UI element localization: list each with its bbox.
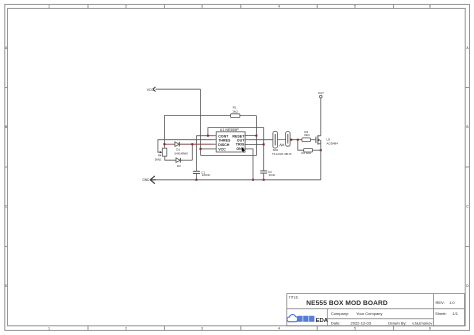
- wire pot bottom to D2: [165, 156, 176, 160]
- wire VCC vertical drop: [200, 89, 202, 155]
- svg-text:v.tazmanov: v.tazmanov: [412, 321, 432, 326]
- node TRIG junction: [263, 143, 265, 145]
- svg-text:4: 4: [278, 327, 280, 331]
- svg-text:CONT: CONT: [218, 134, 229, 138]
- node GND pin rail junction: [252, 179, 254, 181]
- svg-text:1kΩ: 1kΩ: [232, 110, 238, 114]
- svg-text:GND: GND: [142, 178, 150, 182]
- svg-text:10nF: 10nF: [269, 173, 276, 177]
- node VCC junction: [200, 148, 202, 150]
- svg-text:2: 2: [125, 327, 127, 331]
- capacitor C2: [260, 170, 275, 177]
- wire port to drain: [320, 98, 322, 136]
- svg-text:D1: D1: [176, 147, 180, 151]
- svg-text:SW1: SW1: [273, 148, 279, 152]
- svg-text:EDA: EDA: [316, 318, 329, 324]
- svg-text:Sheet:: Sheet:: [435, 311, 447, 316]
- wire R2 branch down: [298, 140, 304, 151]
- svg-text:Your Company: Your Company: [356, 311, 382, 316]
- svg-text:2022-12-03: 2022-12-03: [351, 321, 372, 326]
- svg-text:1/1: 1/1: [452, 311, 458, 316]
- svg-text:Date:: Date:: [331, 321, 341, 326]
- svg-text:4: 4: [278, 5, 280, 9]
- svg-text:OUT: OUT: [318, 91, 324, 95]
- svg-text:5MΩ: 5MΩ: [155, 158, 162, 162]
- wire RESET pin: [249, 135, 257, 137]
- title block: [287, 294, 465, 326]
- wire VCC port to drop: [156, 88, 201, 90]
- wire C2 bottom: [263, 173, 265, 180]
- resistor R2: [302, 148, 313, 155]
- svg-text:Company:: Company:: [331, 311, 349, 316]
- wire GND pin down: [249, 149, 253, 180]
- svg-text:33Ω: 33Ω: [304, 133, 310, 137]
- frame ticks left: [5, 88, 8, 247]
- node C2 rail junction: [263, 179, 265, 181]
- svg-text:A: A: [466, 46, 469, 50]
- svg-text:3: 3: [201, 5, 203, 9]
- U1 pin stubs left: [213, 136, 216, 149]
- svg-text:RESET: RESET: [232, 134, 245, 138]
- svg-text:VCC: VCC: [218, 148, 226, 152]
- ground port: [142, 176, 156, 184]
- transistor U2 AOD484: [316, 135, 338, 146]
- svg-text:R2 1kΩ: R2 1kΩ: [302, 151, 311, 155]
- svg-text:THRES: THRES: [218, 139, 231, 143]
- node diode cathode junction: [191, 143, 193, 145]
- wire R3 to gate: [311, 139, 316, 141]
- node C1 ground junction: [195, 179, 197, 181]
- node source junction: [320, 149, 322, 151]
- svg-text:C: C: [466, 205, 469, 209]
- wire R2 to source: [313, 149, 321, 151]
- wire CONT loop top: [208, 128, 264, 171]
- capacitor C1: [193, 170, 211, 177]
- port VCC: [147, 87, 156, 92]
- node switch out junction: [290, 139, 292, 141]
- switch SW1 TS-1002T-3817F: [272, 131, 292, 155]
- wire D2 to cathode node: [180, 159, 192, 161]
- resistor R1: [231, 106, 240, 118]
- node RESET junction: [255, 135, 257, 137]
- svg-text:REV:: REV:: [436, 300, 445, 305]
- svg-text:1.0: 1.0: [449, 300, 455, 305]
- frame row letters: [5, 46, 469, 288]
- svg-text:6: 6: [429, 327, 431, 331]
- wire C1 vertical: [195, 136, 197, 172]
- svg-text:Drawn By:: Drawn By:: [388, 321, 406, 326]
- svg-text:5: 5: [354, 5, 356, 9]
- wire OUT to switch: [249, 139, 273, 141]
- svg-text:NE555 BOX MOD BOARD: NE555 BOX MOD BOARD: [306, 300, 388, 307]
- node R3 branch junction: [297, 139, 299, 141]
- wire CONT horizontal: [196, 135, 213, 137]
- svg-text:D2: D2: [177, 164, 181, 168]
- wire TRIG pin: [249, 143, 264, 145]
- frame ticks top: [88, 4, 394, 8]
- svg-text:2: 2: [125, 5, 127, 9]
- wire R1 line left: [164, 116, 230, 149]
- svg-text:AOD484: AOD484: [326, 142, 338, 146]
- frame ticks right: [465, 88, 469, 247]
- svg-text:B: B: [5, 125, 7, 129]
- svg-text:1N4148WS: 1N4148WS: [174, 152, 188, 156]
- svg-text:DISCH: DISCH: [218, 143, 230, 147]
- svg-text:6: 6: [429, 5, 431, 9]
- svg-text:TITLE:: TITLE:: [289, 295, 299, 299]
- svg-text:1: 1: [48, 5, 50, 9]
- port OUT top right: [318, 91, 324, 98]
- U1 pin stubs right: [245, 136, 249, 149]
- svg-text:1: 1: [48, 327, 50, 331]
- wire ground rail: [156, 179, 321, 181]
- wire VCC pin horizontal: [201, 148, 214, 150]
- wire reset loop bottom: [201, 116, 257, 156]
- svg-text:U1 NE555P: U1 NE555P: [220, 128, 240, 132]
- wire source to rail: [320, 144, 322, 180]
- frame ticks bottom: [88, 326, 394, 331]
- op-amp U1 NE555P body: [216, 128, 245, 153]
- wire D1 to DISCH: [179, 143, 213, 145]
- diode D2: [176, 158, 181, 168]
- node CONT junction: [207, 135, 209, 137]
- wire R1 right: [240, 115, 257, 117]
- wire switch to R3: [290, 139, 302, 141]
- potentiometer R4: [155, 148, 167, 162]
- svg-text:TS-1002T-3817F: TS-1002T-3817F: [272, 152, 292, 156]
- logo EDA: [287, 315, 329, 324]
- wire wiper line: [158, 140, 213, 153]
- node pot top junction: [163, 143, 165, 145]
- frame column numbers: [48, 5, 431, 331]
- diode D1: [174, 142, 188, 156]
- svg-text:D: D: [466, 284, 469, 288]
- svg-text:B: B: [466, 125, 468, 129]
- svg-text:5: 5: [354, 327, 356, 331]
- wire cathode vertical: [191, 144, 193, 160]
- wire D1 line: [164, 143, 175, 145]
- svg-text:100nF: 100nF: [202, 173, 211, 177]
- svg-text:3: 3: [201, 327, 203, 331]
- resistor R3: [302, 130, 311, 142]
